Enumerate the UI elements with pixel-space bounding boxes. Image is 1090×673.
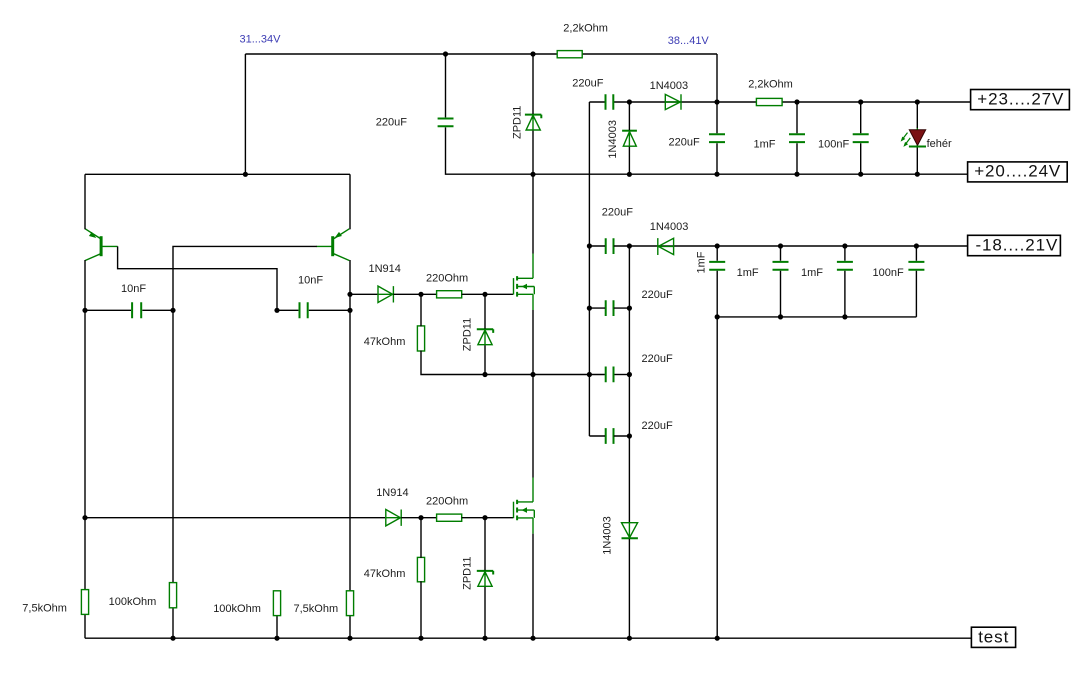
wire zener mid leads [484, 294, 486, 374]
wire cap780 leads [780, 246, 782, 317]
junction bottom x421 [418, 636, 423, 641]
resistor 100kOhm (x277) [273, 591, 280, 616]
svg-text:7,5kOhm: 7,5kOhm [22, 602, 67, 614]
wire 220Ohm-2 to gate mosfet Q4 [462, 517, 513, 519]
junction x245 emitter rail [243, 172, 248, 177]
resistor 2,2kOhm (+23 rail) [756, 98, 782, 105]
resistor 7,5kOhm (x85) [81, 590, 88, 615]
junction cap rail x780 [778, 314, 783, 319]
zener ZPD11 (lower, x485) [477, 571, 493, 586]
wire 1N914-2 to 220Ohm-2 [401, 517, 436, 519]
svg-text:47kOhm: 47kOhm [364, 336, 406, 348]
resistor 220Ohm (upper) [437, 291, 462, 298]
svg-text:1mF: 1mF [737, 267, 759, 279]
port +20....24V [968, 162, 1068, 182]
junction y294 x485 [482, 292, 487, 297]
svg-text:10nF: 10nF [298, 275, 323, 287]
wire diode top lead [628, 102, 630, 130]
svg-text:1N4003: 1N4003 [650, 221, 689, 233]
svg-text:220uF: 220uF [572, 77, 603, 89]
svg-text:100kOhm: 100kOhm [213, 603, 261, 615]
junction bottom x629 [627, 636, 632, 641]
wire x277 resistor bottom lead [276, 616, 278, 639]
port +23....27V [971, 90, 1070, 110]
svg-text:100nF: 100nF [818, 138, 849, 150]
svg-text:1mF: 1mF [695, 251, 707, 273]
wire emitter rail left segment [85, 173, 350, 175]
junction C2 left [587, 306, 592, 311]
wire Q1 base run [118, 246, 277, 310]
wire cap445 top lead [445, 54, 447, 117]
capacitor 10nF (right) [300, 302, 308, 318]
junction +20 rail x797 [794, 172, 799, 177]
capacitor 220uF C1 (x589/629 y246) [606, 238, 614, 254]
svg-text:220uF: 220uF [642, 353, 673, 365]
wire Q4 source down to bottom rail [532, 534, 534, 639]
junction bottom x533 [530, 636, 535, 641]
junction 10nF x350 [347, 308, 352, 313]
wire 47k upper leads [421, 294, 605, 374]
capacitor 1mF (x845) [837, 262, 853, 270]
svg-text:2,2kOhm: 2,2kOhm [563, 23, 608, 35]
capacitor 220uF (x717 between +23 and +20 rails) [709, 134, 725, 142]
capacitor 220uF (on +23 rail) [606, 94, 614, 110]
junction C3 left [587, 372, 592, 377]
svg-text:31...34V: 31...34V [240, 33, 282, 45]
svg-text:220Ohm: 220Ohm [426, 496, 468, 508]
wire Q2 collector to 1N914 [350, 293, 377, 295]
junction 10nF x277 [274, 308, 279, 313]
wire left drop from top rail to emitter rail [244, 54, 246, 174]
capacitor 220uF C2 (y308) [606, 300, 614, 316]
svg-text:38...41V: 38...41V [668, 35, 710, 47]
wire cap445 bottom lead + emitter-return rail right [446, 127, 968, 174]
wire zener lower leads [484, 518, 486, 639]
transistor Q2 (PNP right, mirrored) [316, 229, 349, 261]
wire cap717 leads [716, 102, 718, 174]
junction bottom x173 [170, 636, 175, 641]
capacitor 220uF (x445 reservoir) [438, 119, 454, 127]
junction -18 rail x845 [842, 243, 847, 248]
svg-text:1N914: 1N914 [376, 487, 408, 499]
junction C2 right [627, 306, 632, 311]
junction +20 rail x533 [530, 172, 535, 177]
LED fehér (x917) [901, 128, 926, 149]
wire 1N914 to 220Ohm [393, 293, 436, 295]
resistor 2,2kOhm (top rail) [557, 51, 582, 58]
junction y517 x85 [82, 515, 87, 520]
svg-text:220Ohm: 220Ohm [426, 272, 468, 284]
wire Q2 collector down to bottom [349, 260, 351, 638]
wire zener top lead [532, 54, 534, 114]
svg-text:test: test [978, 628, 1009, 647]
wire AC column x589 [588, 102, 590, 436]
wire x629 column (C1 junction down to big diode) [628, 246, 630, 522]
diode 1N4003 (on +23 rail, pointing right) [665, 94, 681, 110]
wire bottom rail (test) [85, 637, 972, 639]
wire 47k lower leads [420, 518, 422, 639]
port -18....21V [968, 235, 1061, 255]
wire big diode bottom lead [628, 539, 630, 638]
junction cap rail x717 [715, 314, 720, 319]
wire Q3 source down [532, 310, 534, 478]
junction y294 x421 [418, 292, 423, 297]
junction -18 rail x629 [627, 243, 632, 248]
svg-text:1mF: 1mF [754, 138, 776, 150]
transistor Q1 (PNP left) [85, 229, 117, 261]
svg-text:220uF: 220uF [602, 206, 633, 218]
capacitor 1mF (x780) [773, 262, 789, 270]
junction +23 rail x860 [858, 99, 863, 104]
svg-text:-18....21V: -18....21V [976, 235, 1059, 254]
zener ZPD11 (top, x533) [525, 115, 541, 130]
capacitor 100nF (x916) [908, 262, 924, 270]
junction top rail x445 [443, 51, 448, 56]
capacitor 100nF (x860) [853, 134, 869, 142]
wire C2 leads [589, 307, 629, 309]
junction y517 x485 [482, 515, 487, 520]
wire 10nF-right leads [277, 309, 350, 311]
junction -18 rail x916 [914, 243, 919, 248]
svg-text:47kOhm: 47kOhm [364, 568, 406, 580]
wire zener bottom lead down to mosfet Q1 drain [532, 131, 534, 254]
wire cap916 leads [915, 246, 917, 317]
capacitor 220uF C4 (y436) [606, 428, 614, 444]
svg-text:10nF: 10nF [121, 283, 146, 295]
junction +23 rail x917 [915, 99, 920, 104]
svg-text:ZPD11: ZPD11 [512, 106, 524, 139]
diode 1N4003 (vertical, x629 top) [622, 131, 637, 147]
svg-text:+20....24V: +20....24V [974, 162, 1061, 181]
junction C3 right [627, 372, 632, 377]
junction y374 x533 [530, 372, 535, 377]
wire y374 right of cap3 [614, 374, 629, 376]
junction bottom x717 [715, 636, 720, 641]
junction bottom x349 [347, 636, 352, 641]
junction y517 x421 [418, 515, 423, 520]
svg-text:fehér: fehér [927, 138, 952, 150]
junction +23 rail x629 [627, 99, 632, 104]
mosfet Q3 (upper, N-ch) [514, 254, 535, 311]
wire cap797 leads [796, 102, 798, 174]
wire Q1 collector down to bottom [84, 260, 86, 638]
resistor 100kOhm (x173) [169, 583, 176, 608]
wire right drop from top rail to +23 rail [716, 54, 718, 102]
junction cap rail x845 [842, 314, 847, 319]
junction top rail x533 [530, 51, 535, 56]
wire 10nF-left leads [85, 309, 173, 311]
svg-text:1N4003: 1N4003 [607, 120, 619, 159]
diode 1N914 (upper driver) [378, 286, 393, 302]
junction y294 x350 [347, 292, 352, 297]
svg-text:220uF: 220uF [669, 136, 700, 148]
svg-text:1N4003: 1N4003 [650, 80, 689, 92]
wire cap860 leads [860, 102, 862, 174]
resistor 47kOhm (upper) [417, 326, 424, 351]
svg-text:100kOhm: 100kOhm [109, 596, 157, 608]
svg-text:1N4003: 1N4003 [602, 516, 614, 555]
wire C4 leads [589, 435, 629, 437]
wire cap group bottom rail [717, 316, 916, 318]
junction bottom x277 [274, 636, 279, 641]
svg-text:220uF: 220uF [642, 420, 673, 432]
junction +20 rail x917 [915, 172, 920, 177]
junction +23 rail x717 [714, 99, 719, 104]
wire +23 rail [589, 101, 970, 103]
wire -18 rail [589, 245, 967, 247]
junction +20 rail x717 [714, 172, 719, 177]
svg-text:+23....27V: +23....27V [977, 89, 1064, 108]
wire Q2 base run [173, 246, 317, 582]
svg-text:ZPD11: ZPD11 [461, 318, 473, 351]
svg-text:1mF: 1mF [801, 267, 823, 279]
diode 1N4003 (on -18 rail, pointing left) [658, 238, 674, 255]
junction +23 rail x797 [794, 99, 799, 104]
junction bottom x485 [482, 636, 487, 641]
svg-text:220uF: 220uF [642, 289, 673, 301]
wire gate-drive lower run [85, 517, 385, 519]
junction -18 rail x717 [715, 243, 720, 248]
capacitor 220uF C3 (y374) [606, 367, 614, 383]
wire x173 resistor bottom lead [172, 608, 174, 638]
diode 1N914 (lower driver) [386, 510, 401, 526]
capacitor 10nF (left) [132, 302, 141, 318]
wire Q1 emitter up [84, 174, 86, 229]
wire top rail 31...34V [245, 53, 717, 55]
junction -18 rail x780 [778, 243, 783, 248]
svg-text:7,5kOhm: 7,5kOhm [294, 603, 339, 615]
svg-text:100nF: 100nF [873, 267, 904, 279]
resistor 47kOhm (lower) [417, 557, 424, 581]
wire cap717b leads [716, 246, 718, 317]
port test [971, 627, 1015, 647]
zener ZPD11 (mid, x485) [477, 329, 493, 344]
wire Q2 emitter up [349, 174, 351, 229]
wire x717 down to test rail [716, 317, 718, 638]
junction C4 right [627, 433, 632, 438]
resistor 220Ohm (lower) [437, 514, 462, 521]
junction -18 rail x589 [587, 243, 592, 248]
junction 10nF x173 [170, 308, 175, 313]
svg-text:220uF: 220uF [376, 116, 407, 128]
junction y374 x485 [482, 372, 487, 377]
mosfet Q4 (lower, N-ch) [514, 478, 535, 534]
wire cap845 leads [844, 246, 846, 317]
resistor 7,5kOhm (x349) [346, 591, 353, 616]
capacitor 1mF (x717 on -18) [709, 262, 725, 270]
svg-text:1N914: 1N914 [369, 263, 401, 275]
wire LED leads [916, 102, 918, 174]
wire 220Ohm to gate Q1 mosfet [462, 293, 513, 295]
svg-text:ZPD11: ZPD11 [461, 556, 473, 589]
capacitor 1mF (x797) [789, 134, 805, 142]
svg-text:2,2kOhm: 2,2kOhm [748, 78, 793, 90]
wire diode bottom lead [628, 147, 630, 175]
junction 10nF x85 [82, 308, 87, 313]
junction +20 rail x629 [627, 172, 632, 177]
junction +20 rail x860 [858, 172, 863, 177]
diode 1N4003 (big, x629 pointing down) [622, 523, 638, 539]
